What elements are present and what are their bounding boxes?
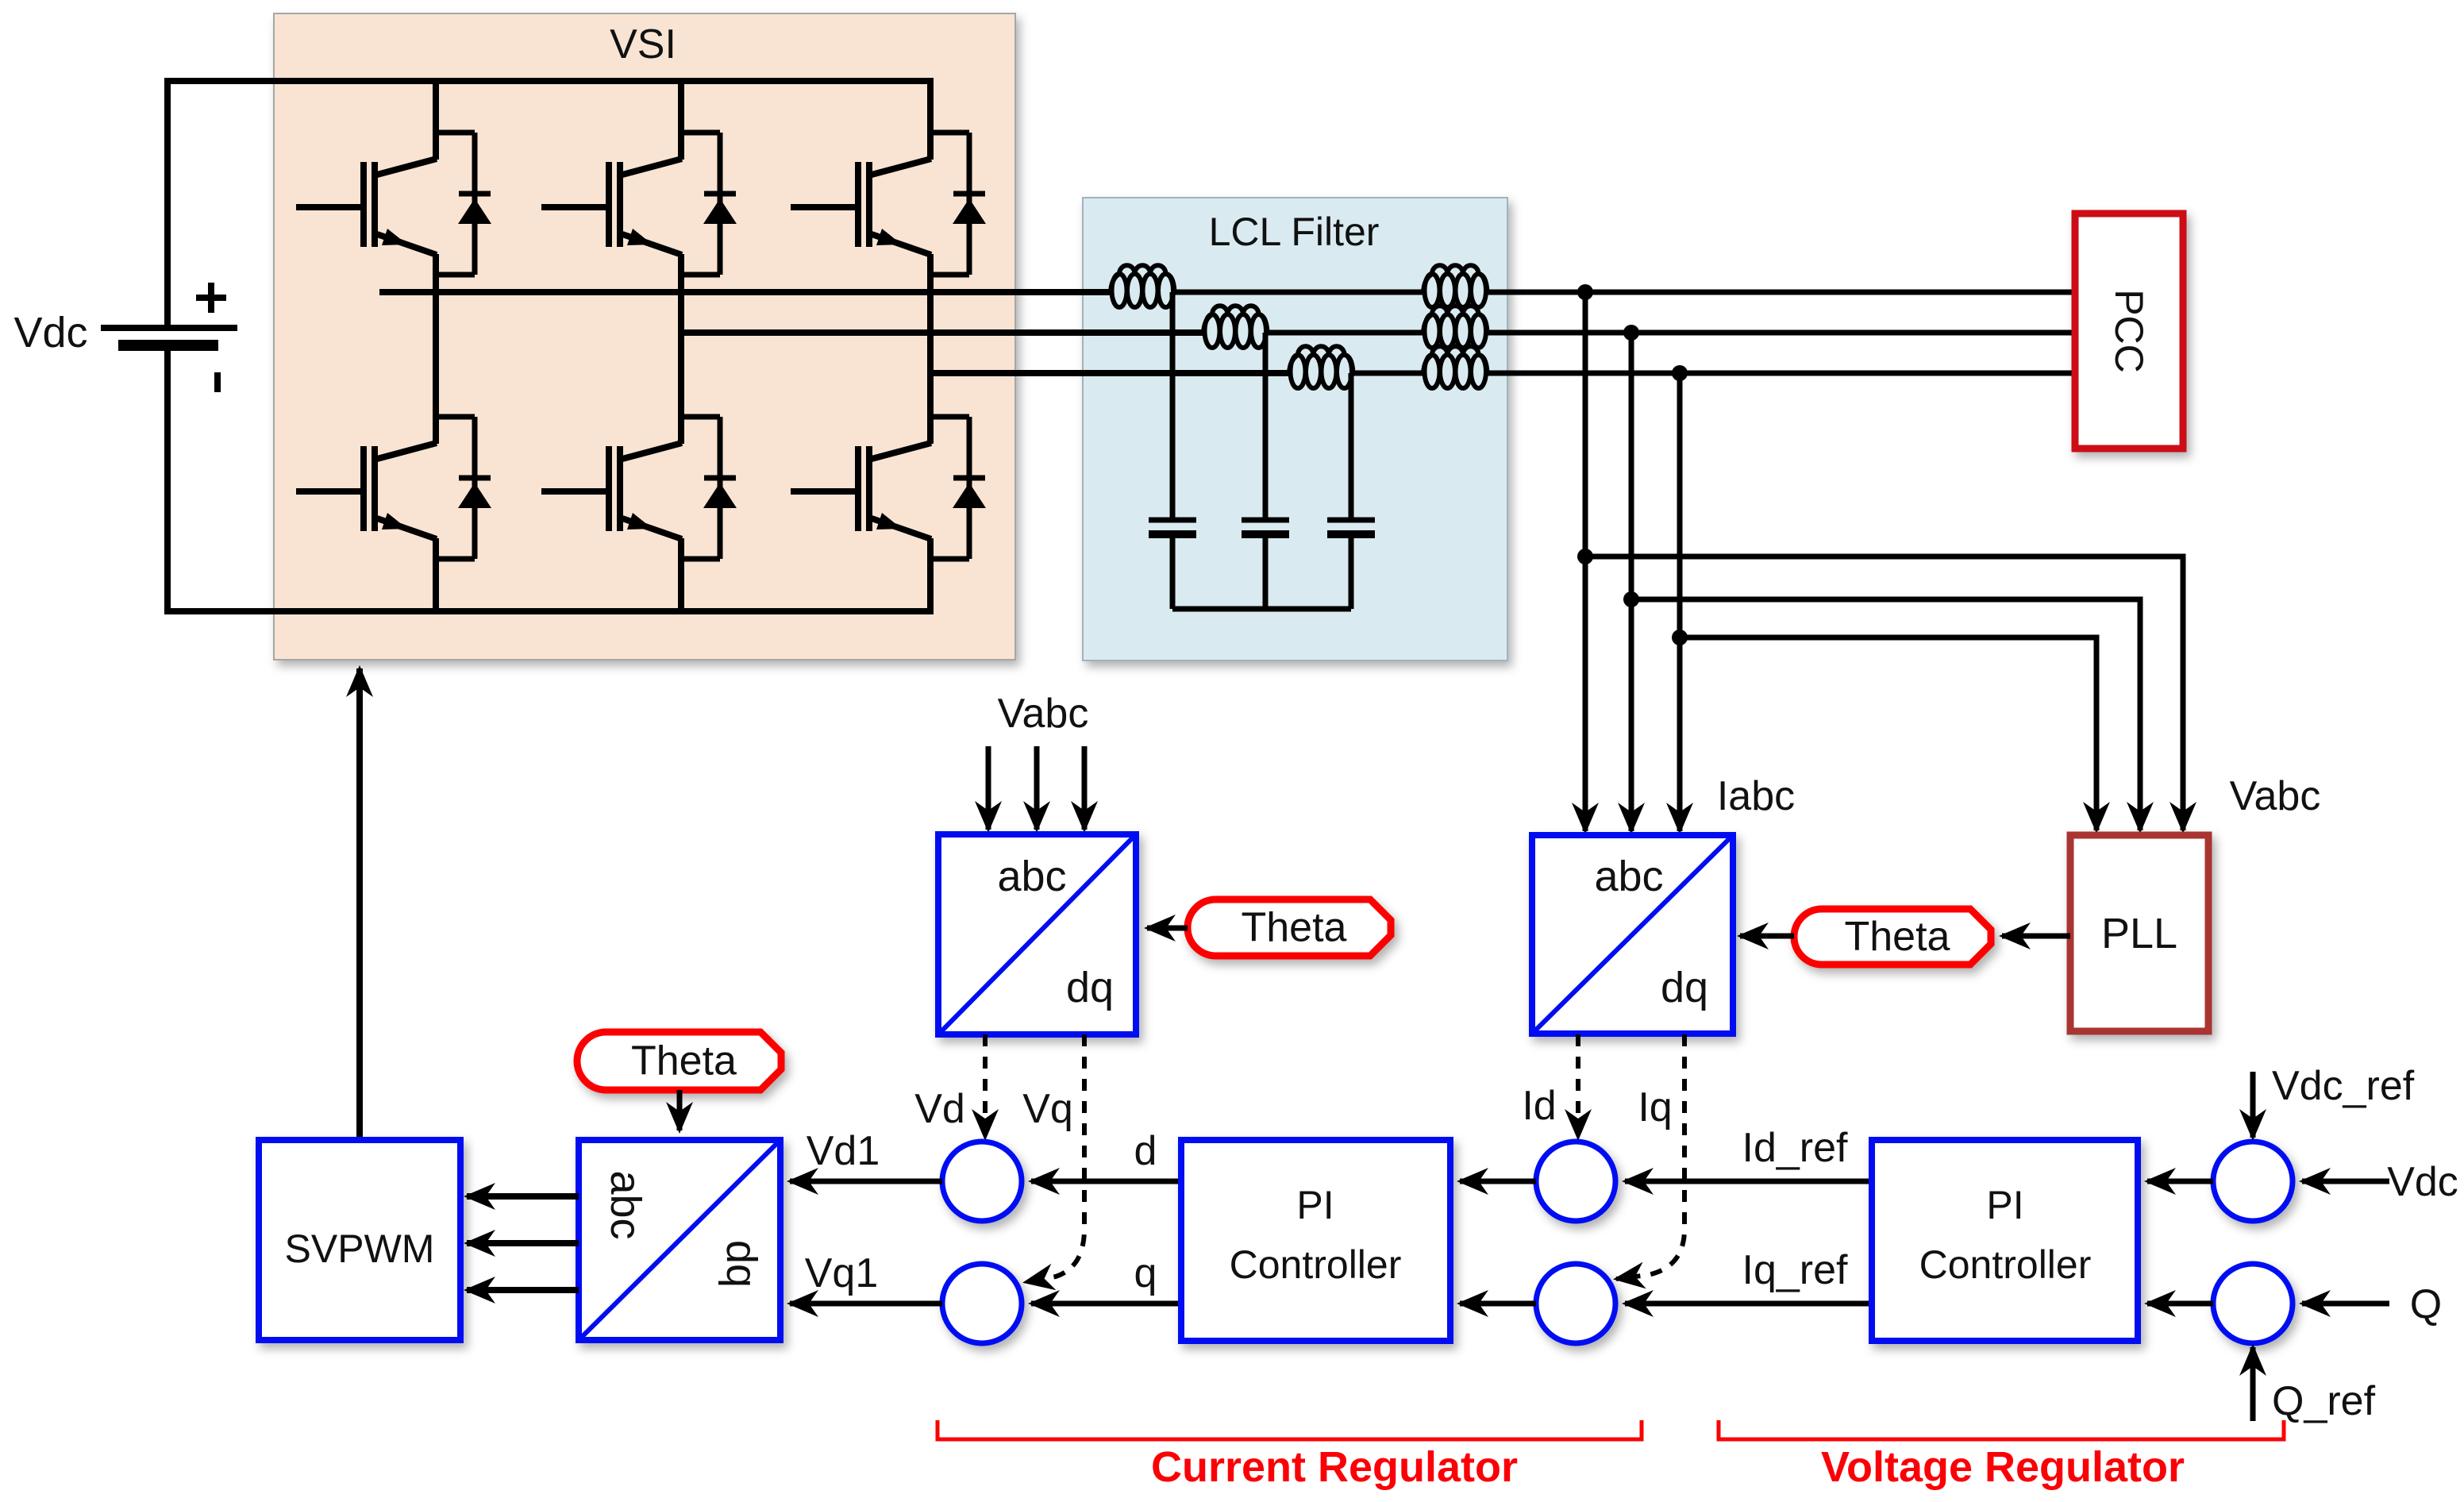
svg-text:Controller: Controller <box>1919 1242 2092 1287</box>
wire shunt branch A <box>1170 292 1176 520</box>
wire Ia measurement drop <box>1583 292 1588 831</box>
wire Vb arrow into transform <box>1034 746 1040 830</box>
abc/dq transform block (voltages) <box>938 834 1136 1034</box>
wire emitter leg 2 bottom to DC- <box>678 538 684 611</box>
wire Va to PLL <box>1585 557 2183 830</box>
node Theta (to inverse transform) <box>577 1032 781 1090</box>
wire collector leg 1 top <box>433 81 439 160</box>
svg-text:Iq_ref: Iq_ref <box>1742 1247 1849 1293</box>
wire PI2 in d <box>2147 1179 2213 1184</box>
svg-text:abc: abc <box>1594 853 1663 900</box>
inductor L1c <box>1289 346 1353 388</box>
VSI inverter block background <box>274 13 1015 660</box>
diode D3 (antiparallel) <box>681 133 737 275</box>
wire phase C rail <box>929 370 1289 376</box>
PCC bus block <box>2075 214 2183 449</box>
svg-text:PI: PI <box>1986 1183 2023 1227</box>
wire phase A to PCC <box>1485 290 2075 295</box>
wire phase B between L1b and L2b <box>1265 330 1423 336</box>
svg-text:dq: dq <box>718 1240 765 1288</box>
wire DC+ top bus <box>164 78 934 84</box>
wire Id_ref <box>1625 1179 1872 1184</box>
wire phase A rail <box>379 289 1111 295</box>
wire Vb to PLL <box>1631 599 2140 830</box>
inductor L1b <box>1203 306 1268 348</box>
svg-text:Vd: Vd <box>914 1086 965 1132</box>
wire emitter leg 1 bottom to DC- <box>433 538 439 611</box>
svg-text:Iq: Iq <box>1638 1084 1672 1130</box>
svg-text:dq: dq <box>1661 964 1708 1011</box>
node Theta (to voltage transform) <box>1188 899 1391 956</box>
svg-text:Voltage Regulator: Voltage Regulator <box>1821 1443 2185 1491</box>
capacitor Cf2 <box>1242 518 1289 523</box>
wire phase b command <box>467 1240 579 1246</box>
svg-text:Vdc: Vdc <box>13 309 87 356</box>
wire collector leg 1 bottom <box>433 292 439 444</box>
svg-text:Vd1: Vd1 <box>807 1128 880 1174</box>
svg-text:PCC: PCC <box>2107 289 2151 373</box>
summing junction S4 <box>1536 1264 1615 1343</box>
brace Voltage Regulator <box>1719 1420 2284 1439</box>
wire Theta into dq/abc <box>677 1090 683 1130</box>
battery plus sign <box>196 295 226 301</box>
node Vb tap <box>1623 591 1639 607</box>
transistor Q4 (IGBT) <box>541 443 682 539</box>
summing junction S6 <box>2213 1264 2293 1343</box>
wire Vdc_ref <box>2250 1072 2256 1138</box>
inductor L1a <box>1111 265 1175 307</box>
wire Q_ref <box>2250 1347 2256 1421</box>
wire PLL to Theta <box>2002 934 2070 939</box>
wire below Cf3 <box>1349 534 1354 609</box>
battery minus sign <box>214 372 221 392</box>
wire Iq_ref <box>1625 1301 1872 1307</box>
wire Vq dashed <box>1026 1034 1084 1282</box>
svg-text:Vq1: Vq1 <box>805 1250 879 1296</box>
wire collector leg 2 bottom <box>678 333 684 444</box>
battery Vdc positive wire <box>164 79 171 328</box>
SVPWM block <box>259 1140 460 1340</box>
inductor L2a <box>1423 265 1488 307</box>
summing junction S3 <box>1536 1142 1615 1221</box>
inductor L2c <box>1423 346 1488 388</box>
wire Theta to abc/dq (voltages) <box>1147 926 1188 931</box>
brace Current Regulator <box>937 1420 1642 1439</box>
svg-text:Theta: Theta <box>631 1038 737 1084</box>
svg-text:Vdc_ref: Vdc_ref <box>2272 1063 2415 1109</box>
wire emitter leg 3 bottom to DC- <box>927 538 934 611</box>
PI Controller (current) block <box>1181 1140 1450 1341</box>
wire PI1 in q <box>1460 1301 1536 1307</box>
wire Ic measurement drop <box>1677 373 1683 831</box>
svg-text:Theta: Theta <box>1242 905 1347 951</box>
battery Vdc negative wire <box>164 345 171 614</box>
svg-text:Id: Id <box>1522 1083 1556 1129</box>
wire d <box>1031 1179 1181 1184</box>
svg-text:Id_ref: Id_ref <box>1742 1125 1849 1171</box>
wire capacitor common bus <box>1172 607 1351 612</box>
wire q <box>1031 1301 1181 1307</box>
svg-text:dq: dq <box>1066 964 1114 1011</box>
wire Theta to abc/dq (currents) <box>1740 934 1794 939</box>
transistor Q1 (IGBT) <box>296 159 437 255</box>
transistor Q2 (IGBT) <box>296 443 437 539</box>
svg-text:q: q <box>1134 1250 1157 1296</box>
wire Va arrow into transform <box>986 746 991 830</box>
svg-text:Current Regulator: Current Regulator <box>1151 1443 1518 1491</box>
svg-text:Iabc: Iabc <box>1717 773 1795 819</box>
diode D6 (antiparallel) <box>930 417 986 559</box>
wire Vdc input <box>2302 1179 2389 1184</box>
summing junction S5 <box>2213 1142 2293 1221</box>
diode D4 (antiparallel) <box>681 417 737 559</box>
node phase B measurement junction <box>1623 325 1639 341</box>
svg-text:Vdc: Vdc <box>2387 1159 2458 1205</box>
wire Vd1 <box>790 1179 942 1184</box>
transistor Q5 (IGBT) <box>791 159 931 255</box>
svg-text:Vq: Vq <box>1022 1086 1073 1132</box>
abc/dq transform block (currents) <box>1532 835 1733 1034</box>
svg-text:Controller: Controller <box>1230 1242 1402 1287</box>
wire PI2 in q <box>2147 1301 2213 1307</box>
svg-text:VSI: VSI <box>610 21 676 67</box>
wire emitter leg 1 top to phase node <box>433 254 439 292</box>
summing junction S1 <box>942 1142 1022 1221</box>
svg-text:PLL: PLL <box>2101 910 2177 957</box>
svg-text:Vabc: Vabc <box>998 691 1089 737</box>
wire phase a command <box>467 1193 579 1200</box>
wire phase B to PCC <box>1485 330 2075 336</box>
node Theta (from PLL) <box>1794 909 1991 965</box>
svg-text:SVPWM: SVPWM <box>285 1227 435 1271</box>
wire collector leg 2 top <box>678 81 684 160</box>
wire phase C to PCC <box>1485 371 2075 376</box>
dq/abc inverse transform block <box>579 1140 780 1340</box>
wire Vq1 <box>790 1301 942 1307</box>
PI Controller (voltage) block <box>1872 1140 2138 1341</box>
node phase A measurement junction <box>1577 284 1593 300</box>
svg-text:PI: PI <box>1296 1183 1334 1227</box>
capacitor Cf1 <box>1149 518 1196 523</box>
svg-text:Q_ref: Q_ref <box>2272 1378 2376 1424</box>
svg-text:abc: abc <box>997 853 1066 900</box>
svg-text:Vabc: Vabc <box>2230 773 2321 819</box>
wire emitter leg 2 top to phase node <box>678 254 684 333</box>
wire Iq dashed <box>1616 1034 1684 1279</box>
diode D2 (antiparallel) <box>436 417 491 559</box>
inductor L2b <box>1423 306 1488 348</box>
PLL block <box>2070 835 2208 1031</box>
capacitor Cf3 <box>1327 518 1375 523</box>
wire collector leg 3 bottom <box>927 373 934 444</box>
wire Id dashed <box>1576 1034 1580 1138</box>
wire phase A between L1a and L2a <box>1172 290 1423 295</box>
node Vc tap <box>1672 630 1688 645</box>
wire collector leg 3 top <box>927 81 934 160</box>
svg-text:d: d <box>1134 1128 1157 1174</box>
wire shunt branch C <box>1349 373 1354 520</box>
node phase C measurement junction <box>1672 365 1688 381</box>
transistor Q6 (IGBT) <box>791 443 931 539</box>
node Va tap <box>1577 549 1593 564</box>
wire SVPWM to VSI gate drive <box>356 668 363 1140</box>
LCL Filter block background <box>1083 198 1507 660</box>
wire below Cf2 <box>1263 534 1269 609</box>
wire Ib measurement drop <box>1629 333 1634 831</box>
wire phase C between L1c and L2c <box>1351 371 1423 376</box>
wire Vd dashed <box>983 1034 988 1138</box>
svg-text:Q: Q <box>2410 1281 2442 1327</box>
wire Vc to PLL <box>1680 637 2096 830</box>
svg-text:LCL Filter: LCL Filter <box>1209 210 1380 254</box>
summing junction S2 <box>942 1264 1022 1343</box>
diode D1 (antiparallel) <box>436 133 491 275</box>
transistor Q3 (IGBT) <box>541 159 682 255</box>
svg-text:Theta: Theta <box>1845 914 1950 960</box>
wire DC- bottom bus <box>164 608 934 614</box>
battery Vdc plates <box>101 325 237 331</box>
wire shunt branch B <box>1263 333 1269 520</box>
svg-text:abc: abc <box>602 1170 649 1239</box>
diode D5 (antiparallel) <box>930 133 986 275</box>
wire Q input <box>2302 1301 2389 1307</box>
wire Vc arrow into transform <box>1082 746 1088 830</box>
wire phase c command <box>467 1287 579 1293</box>
wire PI1 in d <box>1460 1179 1536 1184</box>
wire phase B rail <box>679 329 1203 336</box>
wire emitter leg 3 top to phase node <box>927 254 934 373</box>
wire below Cf1 <box>1170 534 1176 609</box>
